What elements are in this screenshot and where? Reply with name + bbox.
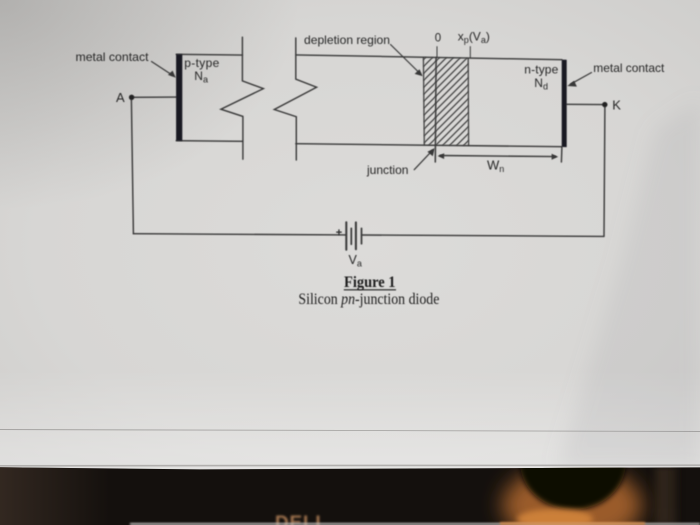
svg-text:+: + bbox=[336, 227, 342, 239]
svg-text:metal contact: metal contact bbox=[593, 61, 665, 75]
svg-text:p-type: p-type bbox=[184, 56, 219, 70]
svg-text:junction: junction bbox=[366, 163, 409, 177]
svg-text:Figure 1: Figure 1 bbox=[344, 274, 396, 291]
svg-text:metal contact: metal contact bbox=[76, 50, 150, 64]
svg-text:xp(Va): xp(Va) bbox=[458, 29, 490, 45]
svg-text:K: K bbox=[612, 98, 621, 113]
svg-text:n-type: n-type bbox=[524, 63, 558, 77]
svg-text:0: 0 bbox=[435, 33, 441, 45]
svg-text:Silicon pn-junction diode: Silicon pn-junction diode bbox=[298, 291, 439, 308]
svg-text:A: A bbox=[116, 90, 125, 105]
svg-text:depletion region: depletion region bbox=[304, 33, 390, 47]
